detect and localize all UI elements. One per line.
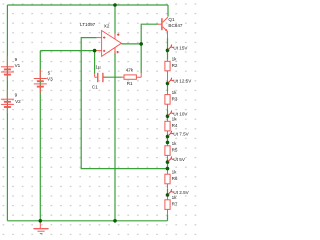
wire divider R2-R3	[167, 85, 169, 92]
wire bottom rail	[7, 220, 167, 222]
svg-text:R6: R6	[172, 176, 178, 181]
wire op-amp V- supply to bottom rail	[114, 51, 116, 221]
voltage pin Ut 12.5V	[168, 78, 173, 83]
svg-text:47k: 47k	[126, 68, 134, 73]
svg-text:R1: R1	[127, 81, 133, 86]
svg-text:Ut 7.5V: Ut 7.5V	[173, 132, 189, 137]
svg-text:X2: X2	[104, 24, 110, 29]
wire top rail	[7, 4, 168, 6]
node emitter Ut 15V	[166, 49, 170, 53]
svg-text:R5: R5	[172, 148, 178, 153]
resistor R5	[165, 143, 170, 158]
svg-text:Ut 15V: Ut 15V	[173, 45, 188, 50]
wire V3 branch vertical	[39, 51, 41, 221]
wire divider R6-R7	[167, 189, 169, 194]
wire emitter down to divider	[167, 38, 169, 60]
resistor R7	[165, 194, 170, 214]
svg-text:1k: 1k	[172, 141, 178, 146]
svg-text:9: 9	[15, 57, 18, 62]
svg-text:V3: V3	[47, 77, 53, 82]
svg-text:9: 9	[15, 92, 18, 97]
resistor R2	[165, 60, 170, 83]
wire inverting node down to C1	[94, 51, 96, 74]
svg-text:Ut 10V: Ut 10V	[173, 111, 188, 116]
svg-text:1k: 1k	[172, 117, 178, 122]
battery V1	[1, 56, 14, 81]
svg-text:R3: R3	[172, 96, 178, 101]
svg-text:V2: V2	[15, 99, 21, 104]
svg-text:Ut 5V: Ut 5V	[173, 157, 185, 162]
transistor Q1 BC847	[158, 17, 168, 38]
voltage pin Ut 2.5V	[168, 189, 173, 194]
node Ut 5V	[166, 160, 170, 164]
voltage pin Ut 10V	[168, 111, 173, 116]
svg-text:1k: 1k	[172, 170, 178, 175]
wire divider R5-R6	[167, 159, 169, 170]
svg-text:C1: C1	[92, 85, 98, 90]
resistor R3	[165, 91, 170, 110]
wire op-amp inverting input from V3	[40, 50, 96, 52]
node Ut 10V	[166, 114, 170, 118]
node inverting input / C1 junction	[93, 49, 97, 53]
svg-text:R7: R7	[172, 202, 178, 207]
resistor R1	[121, 73, 141, 80]
svg-text:5: 5	[48, 70, 51, 75]
wire output down to R1	[140, 44, 142, 73]
wire op-amp V+ supply to top rail	[114, 5, 116, 34]
node output junction	[139, 42, 143, 46]
capacitor C1	[95, 73, 107, 82]
resistor R4	[165, 119, 170, 133]
svg-text:R4: R4	[172, 123, 178, 128]
node V- bottom junction	[113, 219, 117, 223]
svg-text:1µ: 1µ	[95, 65, 101, 70]
svg-text:1k: 1k	[172, 195, 178, 200]
battery V3	[34, 69, 47, 92]
wire op-amp output	[121, 43, 141, 45]
op-amp X2 LT1097	[96, 31, 121, 57]
svg-text:1k: 1k	[172, 57, 178, 62]
voltage pin Ut 7.5V	[168, 131, 173, 136]
svg-text:Q1: Q1	[168, 17, 175, 22]
battery V2	[1, 89, 14, 113]
wire left rail	[6, 5, 8, 221]
wire R7 to bottom rail	[167, 214, 169, 221]
ground	[33, 221, 48, 234]
wire C1 to R1	[103, 76, 121, 78]
node Ut 7.5V	[166, 135, 170, 139]
wire feedback from divider to non-inverting input	[81, 38, 167, 169]
wire output to base of Q1	[141, 24, 158, 44]
svg-text:Ut 2.5V: Ut 2.5V	[173, 190, 189, 195]
node feedback tap	[166, 167, 170, 171]
svg-text:BC847: BC847	[168, 23, 182, 28]
wire divider R3-R4	[167, 110, 169, 119]
svg-text:R2: R2	[172, 63, 178, 68]
svg-text:V1: V1	[15, 63, 21, 68]
node ground junction	[39, 219, 43, 223]
node Ut 2.5V	[166, 193, 170, 197]
voltage pin Ut 15V	[168, 45, 173, 50]
node Ut 12.5V	[166, 82, 170, 86]
node top rail V+ junction	[113, 3, 117, 7]
voltage pin Ut 5V	[168, 156, 173, 161]
wire top rail right corner down to collector	[167, 5, 169, 17]
wire divider R4-R5	[167, 133, 169, 143]
resistor R6	[165, 170, 170, 189]
node R4-R5	[166, 141, 170, 145]
svg-text:1k: 1k	[172, 90, 178, 95]
svg-text:Ut 12.5V: Ut 12.5V	[173, 79, 192, 84]
svg-text:LT1097: LT1097	[80, 22, 96, 27]
